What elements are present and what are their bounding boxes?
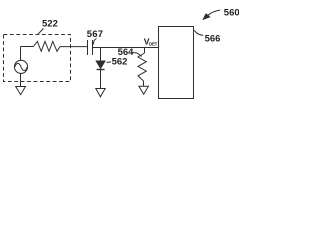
AC source sine wave xyxy=(15,63,28,70)
AC source V1 xyxy=(14,60,27,73)
ground under source xyxy=(16,87,26,95)
ground under resistor 564 xyxy=(139,86,149,94)
svg-text:566: 566 xyxy=(205,33,221,44)
leader for label 562 xyxy=(107,61,111,64)
svg-text:DET: DET xyxy=(149,41,158,46)
resistor R (horizontal, in dashed box) xyxy=(34,41,61,51)
svg-text:562: 562 xyxy=(112,56,128,67)
wire: source bottom to ground xyxy=(20,73,22,86)
block 566 (detector box) xyxy=(159,27,194,99)
wire: resistor to ground xyxy=(143,81,145,86)
dashed box 522 (signal source block) xyxy=(4,35,71,82)
wire: capacitor to box 566 xyxy=(93,47,159,49)
leader for label 564 xyxy=(132,53,142,57)
ground under diode xyxy=(96,89,105,97)
capacitor C 567 left plate xyxy=(87,40,89,55)
capacitor C 567 right plate xyxy=(92,40,94,55)
svg-text:522: 522 xyxy=(42,18,58,29)
diode D 562 anode triangle xyxy=(96,61,105,68)
resistor R 564 stub top xyxy=(144,48,146,54)
wire: resistor to capacitor xyxy=(60,46,88,48)
leader for label 522 xyxy=(38,29,43,34)
arrow for figure label 560 xyxy=(207,10,220,16)
svg-text:567: 567 xyxy=(87,29,103,40)
resistor R 564 (vertical zigzag) xyxy=(138,53,146,81)
arrowhead 560 xyxy=(203,14,209,19)
diode D 562 cathode bar xyxy=(97,69,105,71)
svg-text:560: 560 xyxy=(224,8,239,19)
wire: top horizontal to resistor xyxy=(21,46,34,48)
leader for label 567 xyxy=(93,39,96,45)
wire: diode to ground xyxy=(100,70,102,89)
wire: diode branch down xyxy=(100,48,102,62)
wire: source top to corner xyxy=(20,47,22,61)
leader for label 566 xyxy=(194,30,203,35)
